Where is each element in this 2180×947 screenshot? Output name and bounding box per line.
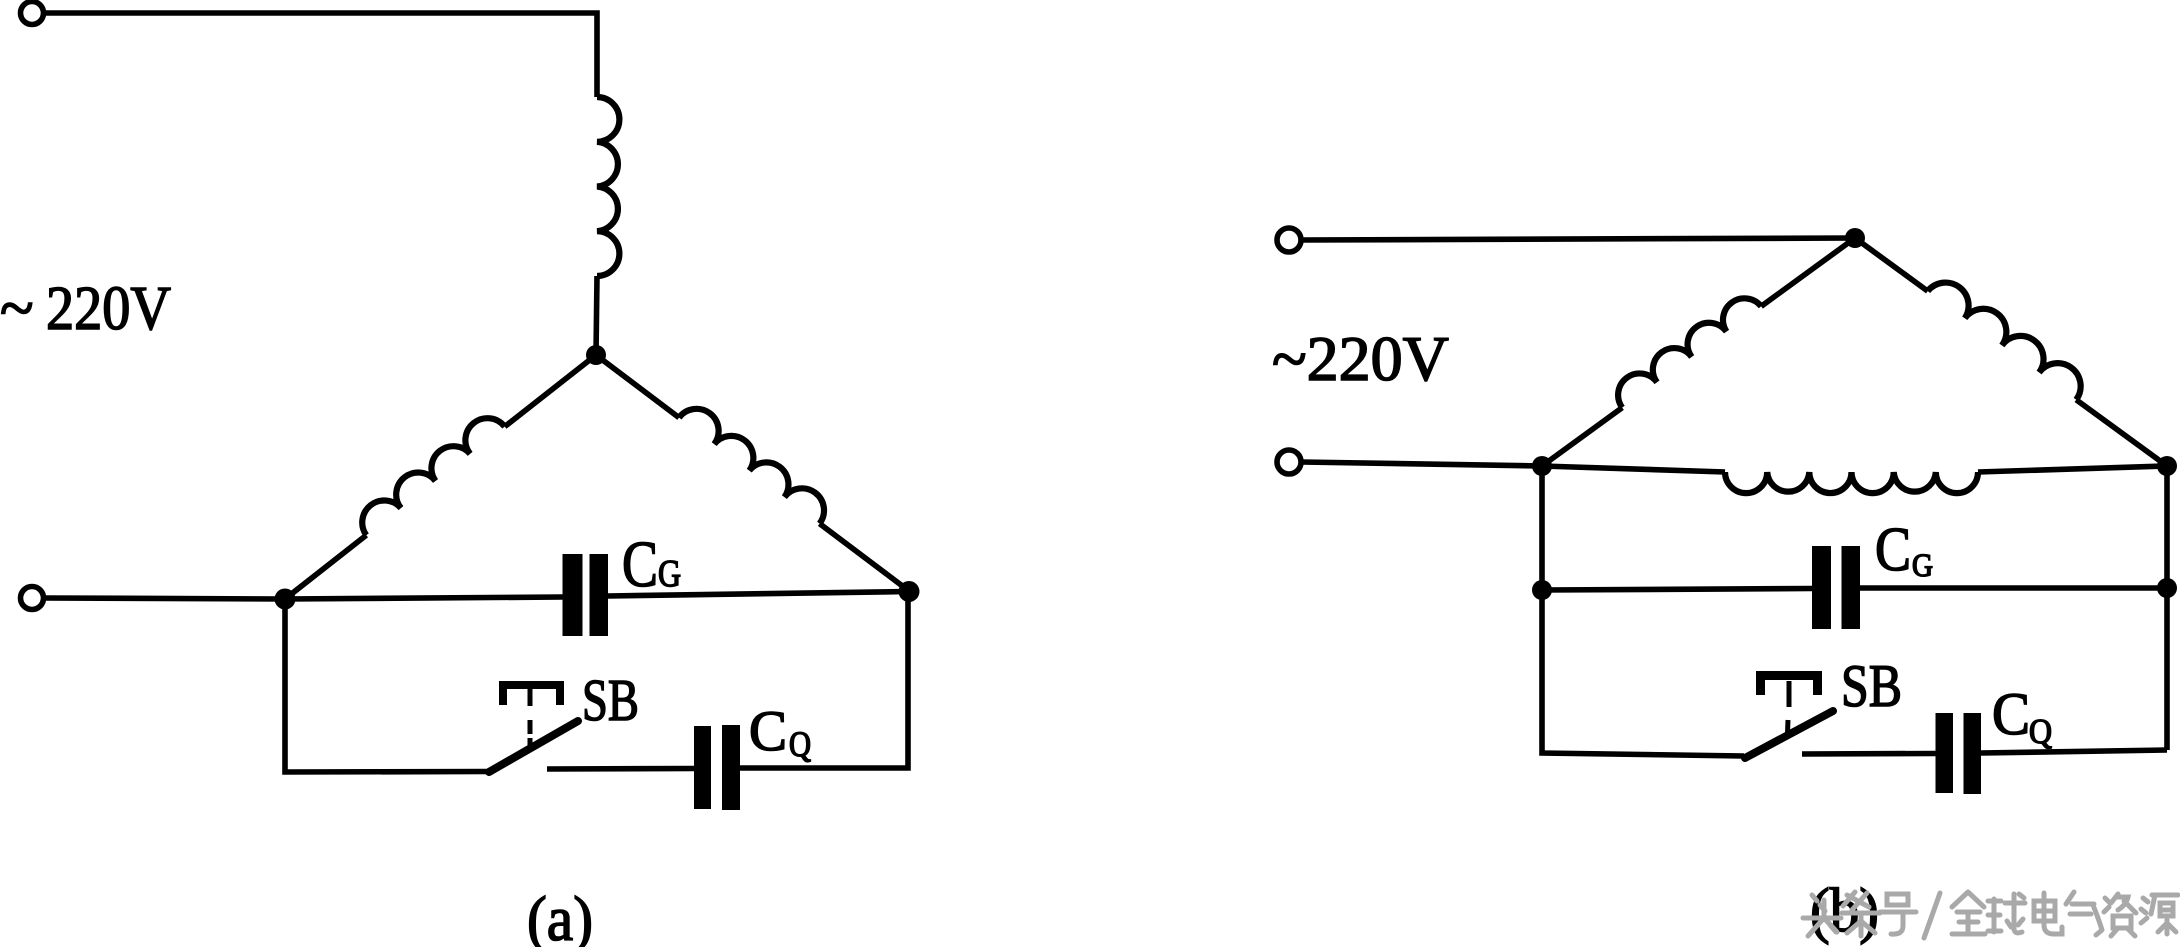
- svg-text:~220V: ~220V: [1272, 323, 1449, 394]
- svg-text:G: G: [1912, 548, 1933, 584]
- svg-text:C: C: [749, 700, 787, 763]
- svg-text:C: C: [622, 528, 658, 601]
- svg-text:(a): (a): [527, 883, 593, 947]
- svg-text:~: ~: [0, 275, 34, 343]
- svg-text:SB: SB: [582, 667, 639, 733]
- svg-text:C: C: [1992, 681, 2030, 747]
- svg-text:G: G: [658, 553, 681, 595]
- svg-text:Q: Q: [2029, 712, 2052, 751]
- svg-text:SB: SB: [1841, 653, 1902, 719]
- svg-text:Q: Q: [789, 724, 811, 764]
- svg-text:220V: 220V: [46, 275, 171, 343]
- svg-text:C: C: [1875, 516, 1911, 584]
